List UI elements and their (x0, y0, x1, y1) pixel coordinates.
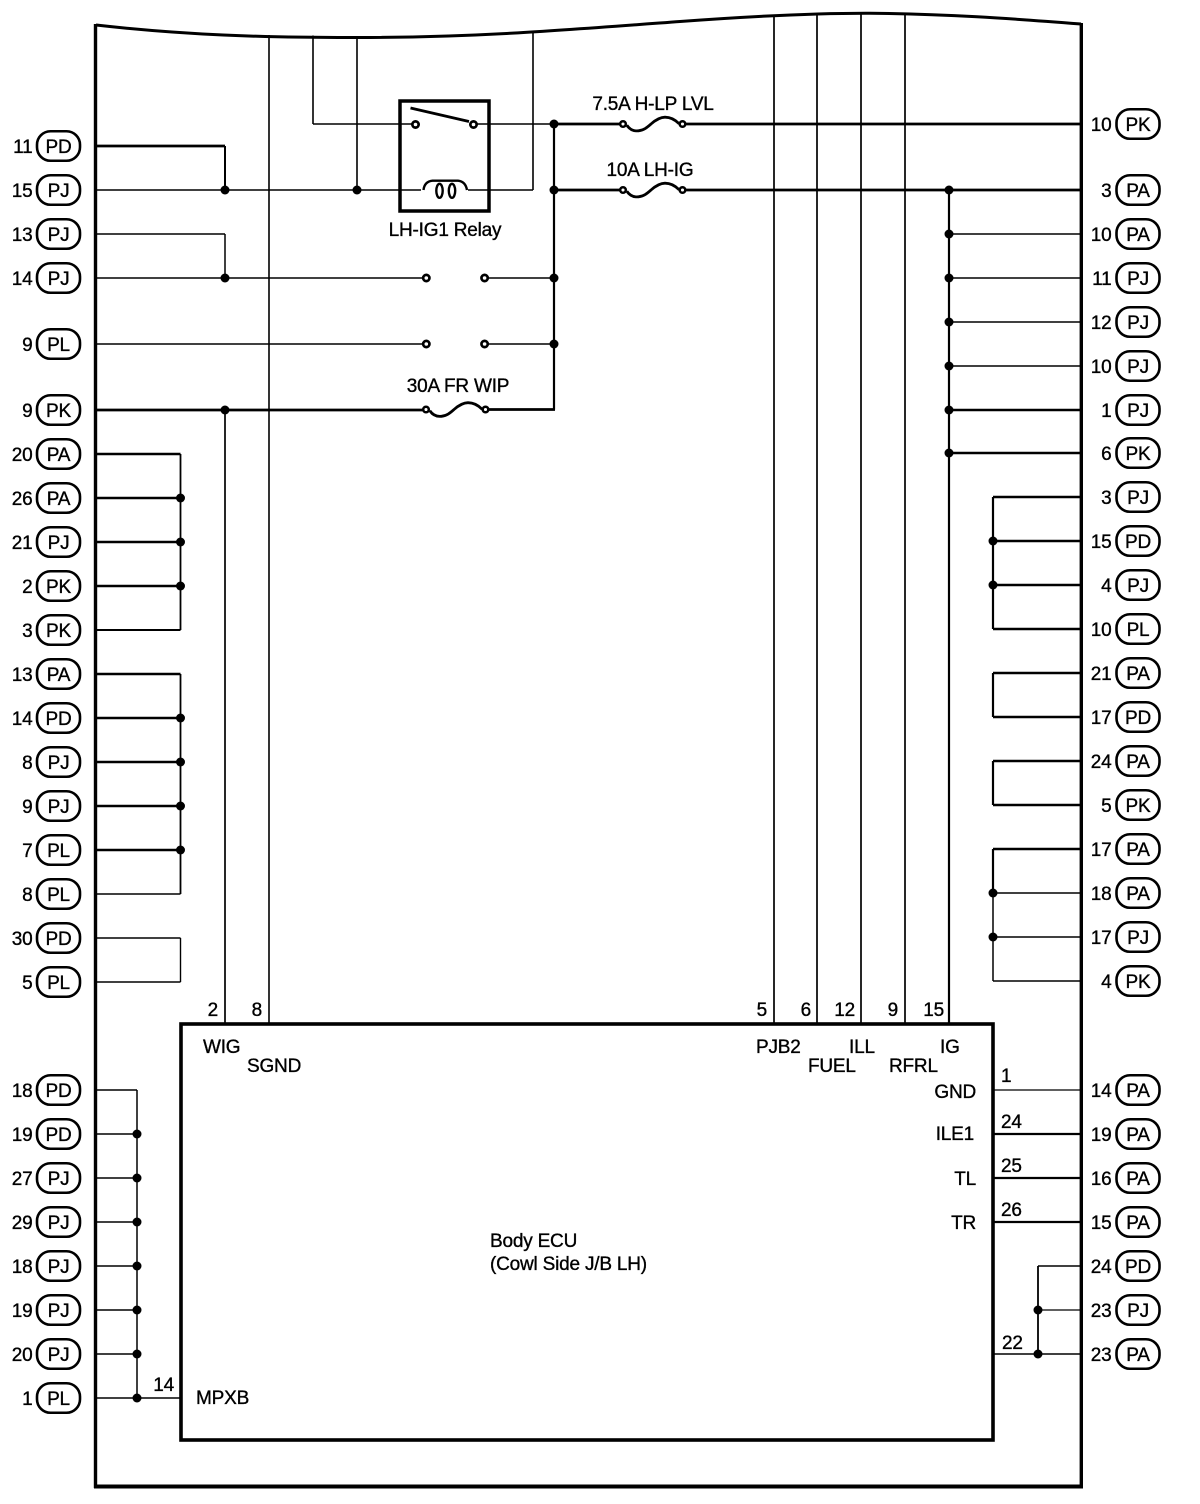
junction 22 / 23 PA (1034, 1350, 1043, 1359)
svg-text:PJ: PJ (48, 1257, 70, 1278)
wire relay switch output (477, 123, 554, 125)
junction 18 PA (989, 889, 998, 898)
wire 15 PJ to relay coil (95, 189, 421, 191)
wire 13 PJ (95, 233, 225, 235)
relay LH-IG1 coil (424, 181, 468, 190)
junction 20 PA..3 PK y542 (176, 538, 185, 547)
svg-text:PA: PA (1126, 1169, 1150, 1190)
svg-text:PA: PA (1126, 752, 1150, 773)
svg-text:4: 4 (1101, 576, 1112, 597)
junction 17 PJ (989, 933, 998, 942)
junction 9 PK / WIG feeder (221, 406, 230, 415)
svg-text:PK: PK (1126, 972, 1151, 993)
junction 13 PA..8 PL y806 (176, 802, 185, 811)
svg-text:24: 24 (1001, 1112, 1022, 1133)
wire WIG feeder to pin 2 (224, 410, 226, 1024)
svg-text:PL: PL (47, 335, 70, 356)
svg-text:26: 26 (12, 489, 33, 510)
junction 10A row / IG feeder (945, 186, 954, 195)
svg-text:19: 19 (12, 1301, 33, 1322)
svg-text:PK: PK (1126, 115, 1151, 136)
svg-text:5: 5 (757, 1000, 767, 1021)
svg-text:PD: PD (1125, 708, 1151, 729)
junction 18 PD..20 PJ y1310 (133, 1306, 142, 1315)
svg-text:PJB2: PJB2 (756, 1037, 801, 1058)
svg-text:WIG: WIG (203, 1037, 240, 1058)
wire contact to bus 14 PJ row (488, 277, 554, 279)
svg-text:PK: PK (1126, 444, 1151, 465)
svg-text:PA: PA (1126, 181, 1150, 202)
svg-text:PJ: PJ (1127, 269, 1149, 290)
wire relay coil output to top (532, 33, 534, 191)
svg-text:PJ: PJ (1127, 928, 1149, 949)
svg-text:LH-IG1 Relay: LH-IG1 Relay (389, 220, 502, 241)
svg-text:5: 5 (1101, 796, 1111, 817)
junction 4 PJ (989, 581, 998, 590)
svg-text:17: 17 (1091, 708, 1112, 729)
junction 18PD group / 1 PL (136, 1354, 138, 1398)
svg-text:PA: PA (1126, 840, 1150, 861)
svg-text:2: 2 (22, 577, 32, 598)
svg-text:24: 24 (1091, 1257, 1112, 1278)
wire 9 PL to contact (95, 343, 423, 345)
wire 24 PD (1038, 1265, 1081, 1267)
svg-text:25: 25 (1001, 1156, 1022, 1177)
svg-text:22: 22 (1002, 1333, 1023, 1354)
svg-text:17: 17 (1091, 928, 1112, 949)
svg-text:PJ: PJ (1127, 401, 1149, 422)
svg-text:PK: PK (46, 621, 71, 642)
svg-text:2: 2 (208, 1000, 218, 1021)
svg-text:PD: PD (46, 137, 72, 158)
wire ILL feeder pin 12 (860, 13, 862, 1024)
svg-text:PJ: PJ (1127, 576, 1149, 597)
svg-text:29: 29 (12, 1213, 33, 1234)
svg-text:21: 21 (12, 533, 33, 554)
svg-text:13: 13 (12, 665, 33, 686)
junction 20 PJ (133, 1350, 142, 1359)
svg-text:PJ: PJ (1127, 488, 1149, 509)
svg-text:16: 16 (1091, 1169, 1112, 1190)
wire group 3 PJ..10 PL (993, 496, 1081, 498)
svg-text:IG: IG (940, 1037, 960, 1058)
svg-text:10: 10 (1091, 115, 1112, 136)
svg-text:18: 18 (1091, 884, 1112, 905)
svg-text:PJ: PJ (48, 225, 70, 246)
wire bus x554 (553, 124, 555, 410)
wire 11 PD (95, 145, 225, 148)
relay LH-IG1 switch contact (411, 108, 470, 122)
svg-text:12: 12 (1091, 313, 1112, 334)
svg-text:14: 14 (12, 709, 33, 730)
wire 10 PA (949, 233, 1081, 235)
wire FUEL feeder pin 6 (816, 14, 818, 1025)
junction 20 PA..3 PK y586 (176, 582, 185, 591)
junction bus/10A fuse row (550, 186, 559, 195)
fuse 30A FR WIP (430, 403, 482, 417)
svg-text:TR: TR (951, 1213, 976, 1234)
wire to 10A fuse (554, 189, 620, 192)
svg-text:10A LH-IG: 10A LH-IG (607, 160, 694, 181)
svg-text:PD: PD (46, 929, 72, 950)
svg-text:15: 15 (1091, 532, 1112, 553)
svg-text:11: 11 (13, 137, 32, 158)
junction switch output / 7.5A fuse (550, 120, 559, 129)
svg-text:21: 21 (1091, 664, 1112, 685)
svg-text:24: 24 (1091, 752, 1112, 773)
svg-text:PL: PL (47, 841, 70, 862)
svg-text:15: 15 (923, 1000, 944, 1021)
svg-text:PA: PA (47, 665, 71, 686)
wire 11 PJ (949, 277, 1081, 279)
wire 14 PJ to contact (95, 277, 423, 279)
svg-text:17: 17 (1091, 840, 1112, 861)
svg-text:14: 14 (12, 269, 33, 290)
fuse 10A LH-IG (627, 183, 679, 197)
wire group 17 PA..4 PK (993, 848, 1081, 850)
svg-text:9: 9 (888, 1000, 898, 1021)
junction IG feeder / 6 PK (945, 449, 954, 458)
svg-text:8: 8 (252, 1000, 262, 1021)
junction 13 PA..8 PL y762 (176, 758, 185, 767)
svg-text:1: 1 (22, 1389, 32, 1410)
svg-text:GND: GND (934, 1082, 976, 1103)
contact pair 9 PL row (423, 341, 429, 347)
svg-text:PD: PD (46, 709, 72, 730)
svg-text:18: 18 (12, 1257, 33, 1278)
svg-text:11: 11 (1092, 269, 1111, 290)
wire group 24 PA..5 PK (993, 760, 1081, 762)
svg-text:PJ: PJ (48, 753, 70, 774)
svg-text:PA: PA (1126, 225, 1150, 246)
wire 10A fuse to 3 PA (686, 189, 1081, 192)
svg-text:PL: PL (47, 885, 70, 906)
junction 20 PA..3 PK y498 (176, 494, 185, 503)
wire 23 PJ (1038, 1309, 1081, 1311)
svg-text:FUEL: FUEL (808, 1056, 856, 1077)
wire pin 22 to 23 PA (993, 1353, 1081, 1355)
wire 1 PJ (949, 409, 1081, 411)
wire GND to 14 PA (993, 1089, 1081, 1091)
svg-text:PD: PD (46, 1081, 72, 1102)
svg-text:20: 20 (12, 1345, 33, 1366)
svg-text:PK: PK (1126, 796, 1151, 817)
svg-text:12: 12 (834, 1000, 855, 1021)
junction IG feeder / 1 PJ (945, 406, 954, 415)
svg-text:PL: PL (1127, 620, 1150, 641)
svg-text:7: 7 (22, 841, 32, 862)
svg-text:PD: PD (1125, 532, 1151, 553)
svg-text:PA: PA (1126, 1213, 1150, 1234)
svg-text:14: 14 (1091, 1081, 1112, 1102)
svg-text:PK: PK (46, 401, 71, 422)
svg-text:30A FR WIP: 30A FR WIP (407, 376, 510, 397)
svg-text:14: 14 (153, 1375, 174, 1396)
Body ECU box (Cowl Side J/B LH) (181, 1024, 993, 1440)
fuse 7.5A H-LP LVL (627, 117, 679, 131)
svg-text:PJ: PJ (1127, 313, 1149, 334)
wire group 13 PA..8 PL (95, 673, 181, 675)
svg-text:10: 10 (1091, 225, 1112, 246)
wire TL to 16 PA (993, 1177, 1081, 1179)
svg-text:PJ: PJ (1127, 1301, 1149, 1322)
svg-text:ILE1: ILE1 (936, 1124, 974, 1145)
wire 7.5A fuse to 10 PK (686, 123, 1081, 126)
svg-text:9: 9 (22, 797, 32, 818)
svg-text:RFRL: RFRL (889, 1056, 938, 1077)
svg-text:PJ: PJ (48, 1301, 70, 1322)
svg-text:PA: PA (1126, 1345, 1150, 1366)
wire TR to 15 PA (993, 1221, 1081, 1223)
svg-text:PJ: PJ (48, 181, 70, 202)
svg-text:1: 1 (1001, 1066, 1011, 1087)
junction 18 PD..20 PJ y1222 (133, 1218, 142, 1227)
junction IG feeder / 12 PJ (945, 318, 954, 327)
svg-text:PA: PA (1126, 1081, 1150, 1102)
junction 11 PD / 15 PJ (221, 186, 230, 195)
wire feeder to relay coil / 15 PJ row (356, 36, 358, 190)
junction IG feeder / 10 PA (945, 230, 954, 239)
svg-text:PJ: PJ (48, 1345, 70, 1366)
wire group 20 PA..3 PK (95, 453, 181, 455)
svg-text:10: 10 (1091, 357, 1112, 378)
svg-text:TL: TL (954, 1169, 976, 1190)
svg-text:MPXB: MPXB (196, 1388, 249, 1409)
svg-text:5: 5 (22, 973, 32, 994)
svg-text:19: 19 (12, 1125, 33, 1146)
svg-text:PL: PL (47, 1389, 70, 1410)
wire contact to bus 9 PL row (488, 343, 554, 345)
wire 6 PK (949, 452, 1081, 454)
svg-text:6: 6 (1101, 444, 1111, 465)
svg-text:PD: PD (1125, 1257, 1151, 1278)
svg-text:PL: PL (47, 973, 70, 994)
svg-text:15: 15 (12, 181, 33, 202)
relay LH-IG1 box (400, 101, 489, 211)
svg-text:7.5A H-LP LVL: 7.5A H-LP LVL (592, 94, 713, 115)
junction IG feeder / 11 PJ (945, 274, 954, 283)
svg-text:PA: PA (47, 445, 71, 466)
svg-text:30: 30 (12, 929, 33, 950)
svg-text:19: 19 (1091, 1125, 1112, 1146)
wire IG feeder (948, 190, 950, 1024)
svg-text:PJ: PJ (48, 533, 70, 554)
svg-text:3: 3 (1101, 488, 1111, 509)
wire to 7.5A fuse (554, 123, 620, 126)
svg-text:10: 10 (1091, 620, 1112, 641)
wire group 18 PD..20 PJ (95, 1089, 137, 1091)
svg-text:PA: PA (47, 489, 71, 510)
svg-text:6: 6 (801, 1000, 811, 1021)
junction 13 PA..8 PL y850 (176, 846, 185, 855)
wire group 30 PD..5 PL (95, 937, 181, 939)
svg-text:20: 20 (12, 445, 33, 466)
junction bus/14 PJ row (550, 274, 559, 283)
svg-text:SGND: SGND (247, 1056, 301, 1077)
svg-text:9: 9 (22, 401, 32, 422)
svg-text:PJ: PJ (48, 1169, 70, 1190)
wire RFRL feeder pin 9 (904, 14, 906, 1024)
svg-text:23: 23 (1091, 1301, 1112, 1322)
wire feeder to relay switch (312, 36, 314, 125)
wire feeder to SGND pin 8 (268, 35, 270, 1024)
junction IG feeder / 10 PJ (945, 362, 954, 371)
svg-text:26: 26 (1001, 1200, 1022, 1221)
svg-text:PJ: PJ (1127, 357, 1149, 378)
junction bus/9 PL row (550, 340, 559, 349)
svg-text:1: 1 (1101, 401, 1111, 422)
wire 12 PJ (949, 321, 1081, 323)
junction 15 PD (989, 537, 998, 546)
svg-text:15: 15 (1091, 1213, 1112, 1234)
svg-text:PK: PK (46, 577, 71, 598)
junction 18 PD..20 PJ y1266 (133, 1262, 142, 1271)
svg-text:PA: PA (1126, 664, 1150, 685)
svg-text:PA: PA (1126, 884, 1150, 905)
contact pair 14 PJ row (423, 275, 429, 281)
wire 9 PK to 30A fuse (95, 409, 423, 412)
junction 13 PA..8 PL y718 (176, 714, 185, 723)
svg-text:PJ: PJ (48, 269, 70, 290)
wire PJB2 feeder pin 5 (773, 15, 775, 1024)
svg-text:8: 8 (22, 885, 32, 906)
wire group 21 PA..17 PD (993, 672, 1081, 674)
wire 1 PL to MPXB pin 14 (95, 1397, 181, 1399)
svg-text:23: 23 (1091, 1345, 1112, 1366)
wire 10 PJ (949, 365, 1081, 367)
svg-text:(Cowl Side J/B LH): (Cowl Side J/B LH) (490, 1254, 647, 1275)
svg-text:3: 3 (1101, 181, 1111, 202)
junction 18 PD..20 PJ y1134 (133, 1130, 142, 1139)
svg-text:9: 9 (22, 335, 32, 356)
junction 13 PJ / 14 PJ (221, 274, 230, 283)
svg-text:Body ECU: Body ECU (490, 1231, 577, 1252)
svg-text:18: 18 (12, 1081, 33, 1102)
svg-text:PD: PD (46, 1125, 72, 1146)
junction 15 PJ feeder (353, 186, 362, 195)
svg-text:27: 27 (12, 1169, 33, 1190)
svg-text:PA: PA (1126, 1125, 1150, 1146)
svg-text:PJ: PJ (48, 797, 70, 818)
junction 18 PD..20 PJ y1178 (133, 1174, 142, 1183)
svg-text:13: 13 (12, 225, 33, 246)
svg-text:8: 8 (22, 753, 32, 774)
junction 24 PD / 23 PJ (1034, 1306, 1043, 1315)
svg-text:PJ: PJ (48, 1213, 70, 1234)
wire 30A fuse output to bus (489, 408, 555, 411)
svg-text:4: 4 (1101, 972, 1112, 993)
svg-text:ILL: ILL (849, 1037, 875, 1058)
svg-text:3: 3 (22, 621, 32, 642)
wire ILE1 to 19 PA (993, 1133, 1081, 1135)
